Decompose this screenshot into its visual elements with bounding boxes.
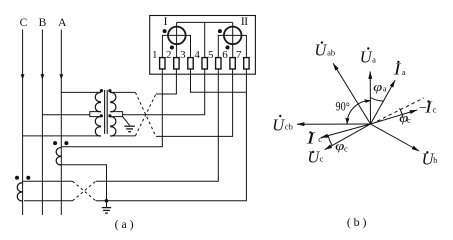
element II voltage coil line (232, 22, 234, 57)
svg-text:(b): (b) (347, 215, 369, 229)
svg-text:6: 6 (222, 49, 228, 61)
CT2 dot right (26, 176, 30, 180)
vector Ic (321, 124, 371, 138)
wire terminal 6 down (156, 69, 233, 136)
svg-text:b: b (433, 155, 437, 165)
vector Ia (371, 80, 396, 124)
CT1 dot left (53, 141, 57, 145)
PT dot primary top (100, 89, 103, 92)
vector Ub (371, 124, 420, 151)
terminal 5 (216, 58, 221, 69)
terminal 6 (230, 58, 235, 69)
wire phase B line (41, 30, 43, 216)
label phi a (373, 79, 387, 94)
vector Uab (333, 63, 370, 124)
svg-text:(a): (a) (115, 217, 137, 231)
terminal 1 (160, 58, 165, 69)
wire CT2 secondary top to cross (23, 180, 73, 182)
svg-text:c: c (320, 154, 324, 164)
svg-text:7: 7 (236, 49, 242, 61)
polarity dot element II voltage (226, 46, 230, 50)
label Ucb (272, 115, 293, 135)
svg-text:5: 5 (208, 49, 214, 61)
label phi c upper (399, 110, 411, 125)
terminal 4 (202, 58, 207, 69)
terminal 7 (244, 58, 249, 69)
vector Ua (369, 72, 371, 125)
label Ia (393, 60, 406, 79)
svg-text:U: U (272, 115, 285, 134)
svg-text:2: 2 (166, 49, 172, 61)
svg-text:1: 1 (152, 49, 158, 61)
CT1 dot right (64, 141, 68, 145)
wire A phase to PT primary top (61, 91, 101, 93)
wire terminal 2 down (156, 69, 177, 94)
PT left middle junction bracket (90, 112, 101, 117)
ground G1 stem (123, 117, 130, 126)
svg-text:c: c (407, 115, 411, 125)
svg-text:U: U (307, 147, 320, 166)
arrow on phase C (21, 74, 25, 79)
arc phi c upper (400, 108, 404, 118)
svg-text:C: C (20, 17, 28, 29)
wire terminal 4 down (123, 69, 205, 115)
svg-text:90°: 90° (336, 98, 350, 113)
polarity dot element I voltage (170, 46, 174, 50)
meter box (150, 16, 256, 75)
wire terminal 7 down (96, 69, 247, 201)
arc 90 degrees (347, 101, 371, 125)
element I voltage coil line (176, 22, 178, 57)
polarity dot element I current (163, 29, 167, 33)
ground G2 stem (106, 201, 108, 207)
svg-text:A: A (58, 17, 67, 29)
wire CT2 secondary bottom to cross (24, 200, 73, 202)
ground G1 bars (124, 125, 134, 127)
element I current coil line (162, 35, 190, 57)
arrow on phase B (41, 74, 45, 79)
PT secondary winding bottom (110, 117, 116, 136)
junction dot ground node (105, 199, 109, 203)
wire voltage common top (177, 21, 233, 23)
PT dot secondary bottom (108, 114, 111, 117)
svg-text:II: II (241, 16, 248, 28)
CT2 dot left (15, 176, 19, 180)
wire CT1 secondary bottom (60, 165, 107, 201)
label Uab (314, 41, 335, 60)
arrow on phase A (59, 74, 63, 79)
dashed crossover upper (135, 92, 156, 136)
svg-text:I: I (164, 16, 168, 28)
wire voltage tap to terminal 4 (204, 22, 206, 57)
terminal 3 (188, 58, 193, 69)
PT secondary winding top (110, 92, 116, 111)
wire C phase to PT primary bottom (23, 135, 101, 137)
svg-text:c: c (318, 134, 322, 144)
wire phase A line (60, 30, 62, 216)
wire terminal 3 down (191, 69, 247, 92)
arc 90 arrowhead lower (345, 118, 349, 125)
arc phi c lower (328, 136, 332, 146)
wire terminal 1 down (61, 69, 162, 147)
PT dot primary bottom (100, 114, 103, 117)
PT core (104, 90, 106, 134)
svg-text:φ: φ (335, 138, 344, 153)
arc phi a (370, 98, 383, 102)
svg-text:B: B (39, 17, 47, 29)
svg-text:c: c (433, 104, 437, 114)
svg-text:U: U (314, 41, 327, 60)
wire phase C line (22, 30, 24, 216)
wire PT secondary top to cross (110, 91, 135, 93)
wattmeter element I circle U1 (168, 27, 186, 45)
CT2 secondary winding on phase C (17, 183, 22, 201)
dashed auxiliary ray (377, 98, 424, 121)
label phi c lower (335, 138, 348, 153)
vector minus Ic (371, 110, 418, 124)
PT dot secondary top (108, 89, 111, 92)
ground G2 bars (102, 207, 111, 209)
wire B phase to PT primary middle (42, 114, 89, 116)
wire PT secondary bottom to cross (110, 135, 135, 137)
polarity dot element II current (218, 29, 222, 33)
label minus Ic (419, 97, 437, 116)
CT1 secondary winding on phase A (56, 148, 61, 165)
PT primary winding bottom (B-C) (95, 117, 101, 136)
PT primary winding top (A-B) (95, 92, 101, 111)
element II current coil line (218, 35, 246, 57)
svg-text:U: U (360, 48, 373, 67)
vector Ucb (297, 123, 371, 125)
terminal 2 (174, 58, 179, 69)
svg-text:a: a (402, 67, 406, 77)
svg-text:a: a (372, 54, 376, 64)
svg-text:a: a (383, 83, 387, 93)
arc 90 arrowhead upper (364, 99, 371, 103)
vector Uc (325, 124, 371, 150)
wire terminal 5 down (96, 69, 219, 181)
wattmeter element II circle U2 (224, 27, 242, 45)
label Ic (305, 129, 322, 148)
label Ub (422, 150, 438, 169)
svg-text:ab: ab (327, 48, 335, 58)
svg-text:4: 4 (194, 49, 200, 61)
svg-text:c: c (344, 143, 348, 153)
svg-text:φ: φ (373, 79, 382, 94)
dashed crossover lower (73, 181, 96, 201)
label Uc (307, 147, 323, 166)
PT right middle junction bracket (110, 112, 122, 117)
svg-text:3: 3 (180, 49, 186, 61)
label Ua (360, 47, 376, 66)
svg-text:cb: cb (285, 122, 293, 132)
